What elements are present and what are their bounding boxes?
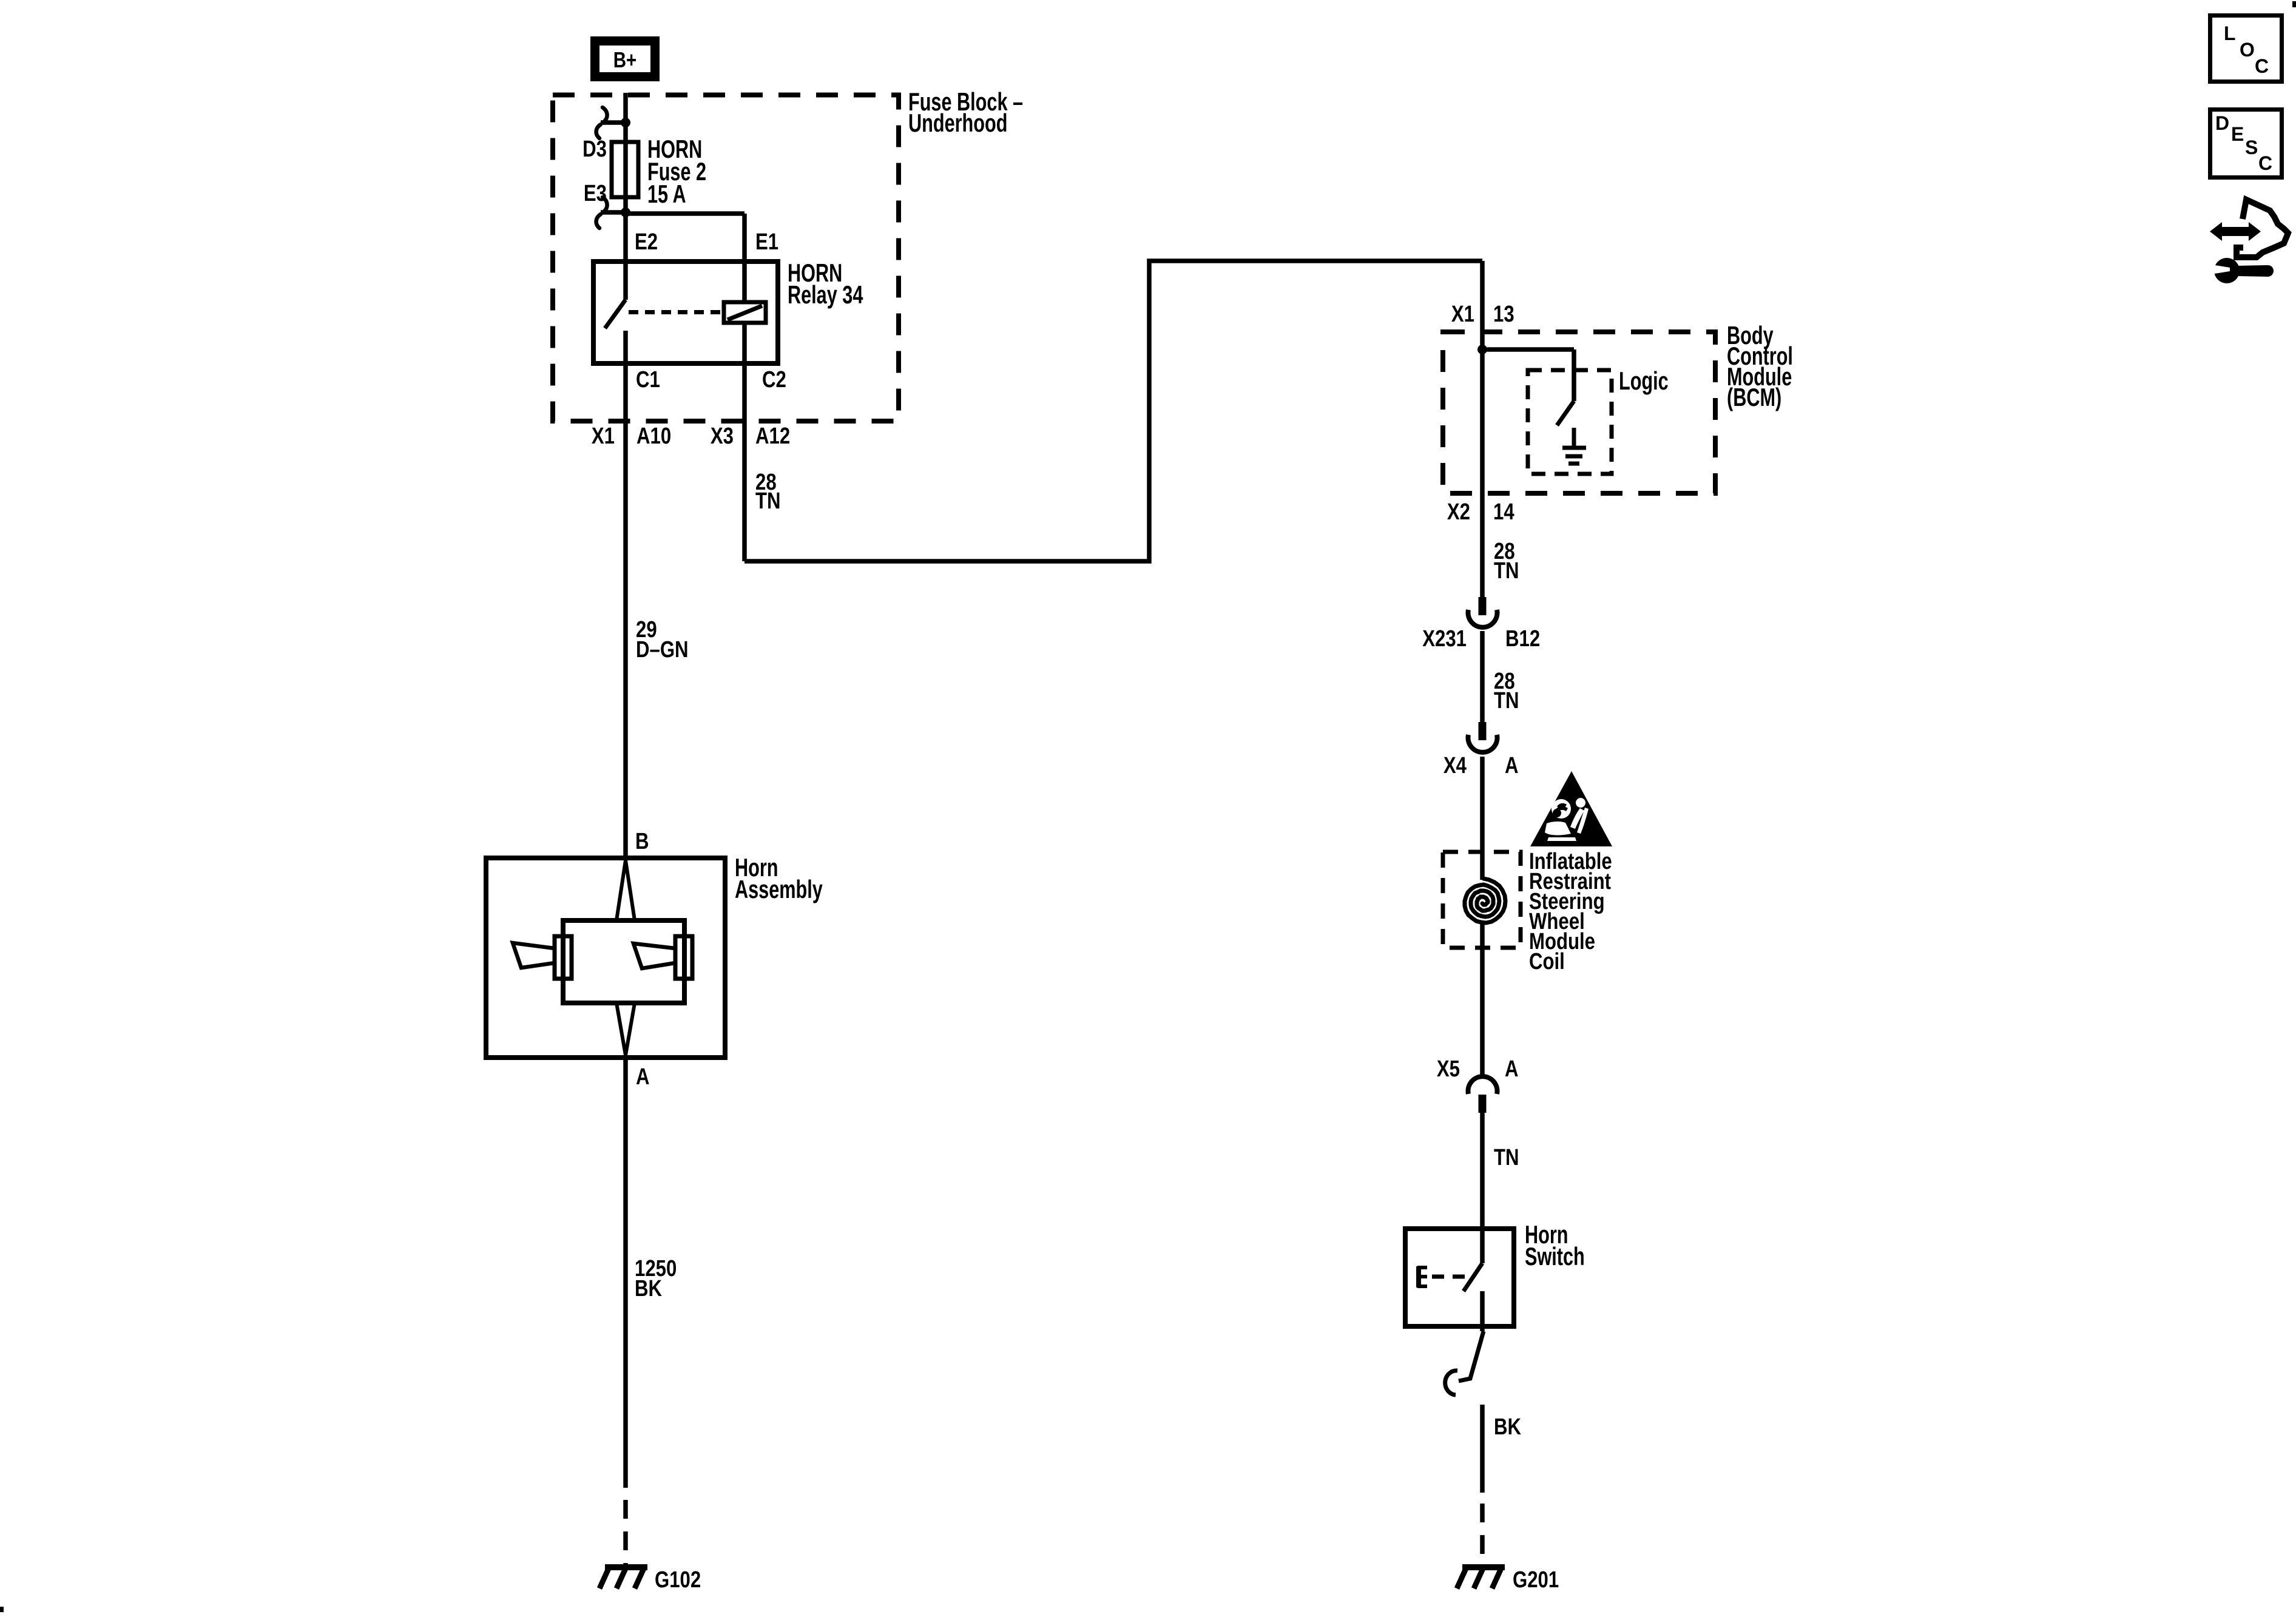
svg-text:X1: X1	[1451, 302, 1474, 327]
svg-text:14: 14	[1493, 499, 1514, 525]
svg-text:Underhood: Underhood	[908, 109, 1007, 137]
svg-text:TN: TN	[1494, 1145, 1519, 1170]
svg-text:S: S	[2245, 137, 2258, 158]
svg-text:A12: A12	[755, 424, 790, 449]
svg-text:D–GN: D–GN	[636, 637, 689, 663]
svg-text:X1: X1	[592, 424, 615, 449]
svg-text:13: 13	[1493, 302, 1514, 327]
svg-text:Assembly: Assembly	[735, 875, 823, 903]
svg-text:C: C	[2258, 152, 2272, 174]
svg-text:BK: BK	[1494, 1414, 1521, 1440]
svg-text:A: A	[636, 1064, 650, 1090]
svg-text:A: A	[1505, 1056, 1519, 1082]
svg-text:E1: E1	[755, 229, 778, 255]
svg-text:L: L	[2224, 22, 2236, 44]
svg-text:B: B	[635, 829, 649, 854]
svg-text:Logic: Logic	[1619, 366, 1669, 395]
svg-text:O: O	[2240, 39, 2255, 61]
svg-text:E3: E3	[584, 181, 607, 206]
svg-text:E2: E2	[635, 229, 658, 255]
svg-text:(BCM): (BCM)	[1727, 383, 1781, 411]
svg-text:X2: X2	[1447, 499, 1470, 525]
svg-text:E: E	[2231, 123, 2244, 145]
svg-text:TN: TN	[755, 488, 781, 514]
svg-text:BK: BK	[635, 1276, 662, 1301]
svg-text:Switch: Switch	[1525, 1242, 1585, 1271]
svg-text:D3: D3	[582, 137, 607, 162]
svg-text:B+: B+	[613, 47, 637, 72]
svg-text:TN: TN	[1494, 558, 1519, 584]
svg-text:15 A: 15 A	[647, 180, 686, 208]
svg-text:G201: G201	[1513, 1567, 1559, 1593]
svg-text:D: D	[2215, 112, 2229, 134]
svg-text:Relay 34: Relay 34	[788, 280, 863, 309]
svg-text:X3: X3	[711, 424, 734, 449]
svg-text:C2: C2	[762, 367, 786, 393]
svg-text:C1: C1	[636, 367, 660, 393]
svg-text:X231: X231	[1422, 626, 1467, 652]
svg-text:X5: X5	[1437, 1056, 1460, 1082]
svg-text:Coil: Coil	[1529, 949, 1565, 974]
svg-text:C: C	[2255, 55, 2269, 77]
svg-text:TN: TN	[1494, 688, 1519, 714]
svg-text:A10: A10	[636, 424, 671, 449]
svg-text:B12: B12	[1505, 626, 1540, 652]
svg-text:A: A	[1505, 753, 1519, 778]
svg-text:G102: G102	[655, 1567, 701, 1593]
svg-text:X4: X4	[1443, 753, 1467, 778]
